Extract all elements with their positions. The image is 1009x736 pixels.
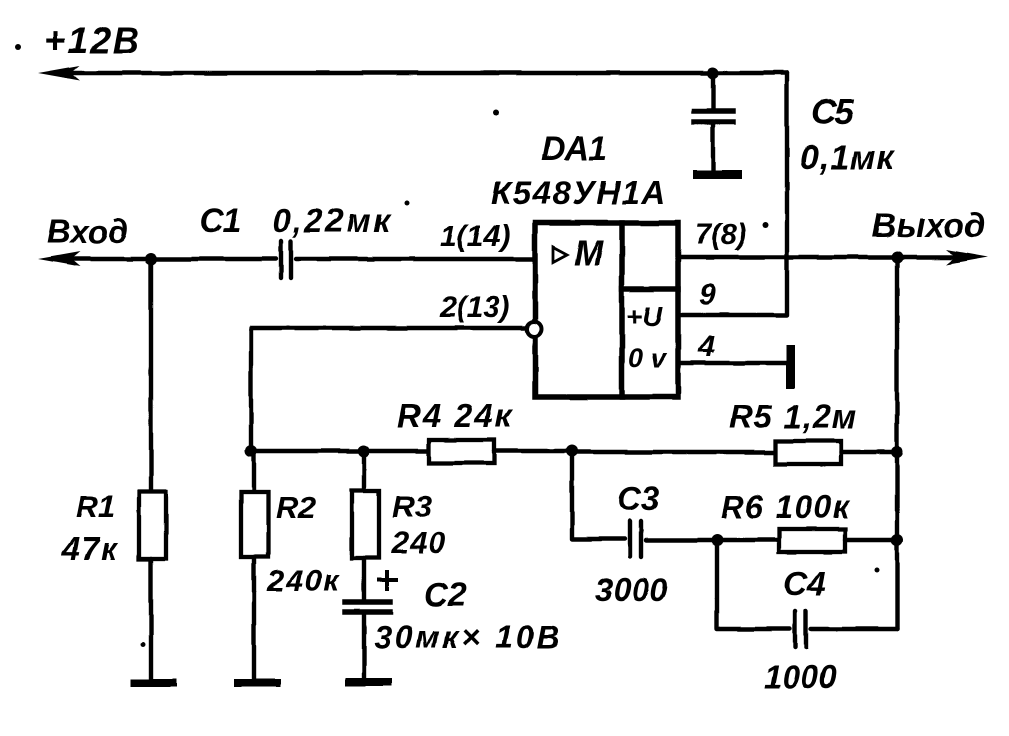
ground for pin 4 — [786, 345, 795, 389]
svg-text:3000: 3000 — [595, 572, 668, 608]
node output arrow terminal — [946, 250, 988, 265]
ground for C2 — [345, 678, 392, 686]
ground for C5 — [693, 170, 742, 179]
resistor R3 — [352, 491, 379, 558]
svg-text:C4: C4 — [783, 565, 825, 602]
svg-text:C5: C5 — [811, 93, 854, 132]
node junction C4 branch — [711, 534, 723, 546]
node input arrow terminal — [38, 252, 80, 267]
svg-text:К548УН1А: К548УН1А — [491, 174, 667, 211]
svg-text:Выход: Выход — [872, 207, 985, 245]
wire R4 to C3 node — [494, 449, 572, 453]
svg-text:R1: R1 — [76, 489, 116, 524]
svg-text:7(8): 7(8) — [695, 219, 747, 251]
svg-text:C2: C2 — [424, 576, 467, 613]
wire right vertical rail — [895, 257, 899, 629]
wire C3 to R6 node — [646, 538, 717, 542]
svg-text:1000: 1000 — [764, 659, 837, 695]
capacitor C4 — [795, 611, 806, 647]
svg-text:30мк× 10В: 30мк× 10В — [374, 619, 563, 655]
wire R2 bottom — [252, 557, 256, 681]
svg-text:47к: 47к — [61, 531, 119, 567]
resistor R4 — [429, 440, 494, 463]
wire +12V rail — [52, 71, 787, 75]
node junction C3 branch — [566, 445, 578, 457]
node junction on +12V rail — [707, 67, 719, 79]
capacitor C5 — [694, 73, 733, 170]
svg-text:M: M — [574, 234, 604, 273]
capacitor C3 — [630, 521, 641, 557]
wire pin2 feedback — [251, 328, 527, 449]
wire R1 top — [149, 259, 153, 492]
resistor R1 — [139, 492, 166, 559]
wire input line — [52, 257, 276, 261]
speck marks — [15, 44, 21, 50]
svg-text:0,22мк: 0,22мк — [272, 202, 392, 239]
wire C4 branch — [717, 540, 790, 629]
node junction R3 branch — [358, 445, 370, 457]
svg-text:R5 1,2м: R5 1,2м — [729, 398, 858, 435]
wire R3 to C2 — [362, 558, 366, 601]
resistor R5 — [775, 441, 841, 464]
wire to R6 — [717, 538, 779, 542]
svg-text:R6 100к: R6 100к — [721, 489, 851, 525]
node output junction — [891, 251, 903, 263]
node pin2 inversion circle — [527, 322, 542, 337]
wire C3 branch down — [572, 452, 625, 539]
svg-text:C3: C3 — [617, 480, 659, 517]
wire C4 to right rail — [811, 627, 897, 631]
ground for R2 — [234, 679, 281, 687]
svg-text:240: 240 — [391, 525, 447, 560]
svg-text:R4 24к: R4 24к — [397, 397, 514, 434]
svg-text:R3: R3 — [392, 489, 432, 524]
wire bottom node row — [251, 449, 429, 453]
wire R1 bottom — [149, 559, 153, 681]
wire pin4 to ground — [680, 361, 786, 365]
wire R2 top — [252, 451, 256, 492]
node +12V arrow terminal — [38, 66, 80, 81]
ground for R1 — [130, 679, 177, 687]
svg-text:2(13): 2(13) — [439, 291, 510, 324]
svg-text:C1: C1 — [199, 202, 241, 240]
wire to R5 — [572, 450, 775, 454]
svg-text:+U: +U — [626, 301, 663, 332]
wire output line — [678, 255, 974, 259]
wire R6 to right rail — [845, 538, 897, 542]
node input junction — [145, 253, 157, 265]
capacitor C2 — [345, 602, 390, 680]
wire +12V rail corner down to pin 9 — [680, 73, 787, 315]
node junction pin2 branch — [245, 445, 257, 457]
capacitor C2 plus sign — [377, 570, 398, 591]
svg-text:R2: R2 — [276, 490, 316, 525]
resistor R6 — [779, 529, 845, 552]
svg-text:9: 9 — [699, 278, 716, 311]
svg-text:0 v: 0 v — [628, 343, 668, 373]
wire R3 top — [362, 451, 366, 491]
svg-text:+12В: +12В — [44, 20, 141, 61]
svg-text:1(14): 1(14) — [440, 220, 510, 253]
svg-text:Вход: Вход — [47, 213, 129, 250]
wire C1 to IC pin1 — [296, 257, 535, 261]
capacitor C1 — [281, 241, 291, 278]
node junction R5 output — [891, 446, 903, 458]
resistor R2 — [241, 492, 268, 557]
wire R5 to right rail — [841, 450, 897, 454]
svg-text:0,1мк: 0,1мк — [800, 139, 895, 177]
svg-text:DA1: DA1 — [541, 130, 606, 168]
node junction R6 output — [891, 534, 903, 546]
svg-text:4: 4 — [697, 330, 715, 363]
svg-text:240к: 240к — [266, 563, 340, 598]
op-amp DA1 — [535, 223, 678, 397]
